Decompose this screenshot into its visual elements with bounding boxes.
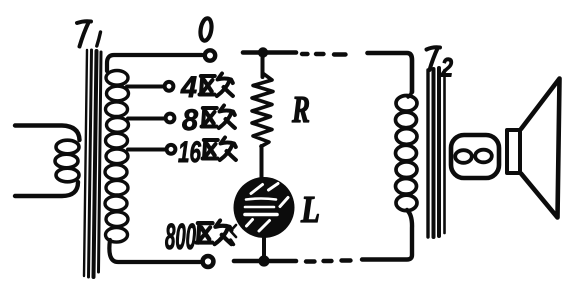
T2 primary winding — [408, 88, 412, 97]
lamp L (hatched disc) — [234, 177, 295, 238]
wire resistor to lamp — [260, 146, 264, 179]
terminal 16-ohm — [167, 145, 176, 154]
T1 primary winding leads — [15, 126, 80, 141]
tap wire 16-ohm — [128, 148, 165, 152]
terminal 0 — [205, 50, 215, 60]
stray pen marks — [231, 225, 237, 237]
wire junction to resistor — [261, 53, 265, 78]
T1 secondary winding loops — [105, 71, 129, 243]
label T1 — [77, 21, 101, 46]
speaker driver (armature) — [451, 135, 499, 178]
svg-text:L: L — [300, 189, 320, 231]
transformer T1 core — [84, 50, 101, 277]
speaker neck — [507, 130, 520, 173]
resistor R — [252, 73, 273, 147]
wire T2 bottom with corner — [362, 210, 412, 260]
tap wire 4-ohm — [127, 85, 163, 89]
terminal 8-ohm — [166, 114, 175, 123]
svg-text:8: 8 — [182, 104, 198, 137]
terminal 4-ohm — [165, 82, 174, 91]
label T2 — [427, 47, 441, 70]
terminal 800-ohm — [203, 256, 214, 267]
wire bottom dashes — [342, 258, 351, 262]
wire top middle — [243, 50, 296, 55]
wire top dashes — [302, 52, 308, 56]
T1 secondary top lead to terminal 0 — [107, 55, 202, 71]
speaker cone — [521, 79, 560, 218]
svg-text:16: 16 — [178, 136, 201, 169]
wire top right with corner down — [368, 53, 413, 92]
T1 primary winding loops — [55, 140, 79, 182]
svg-text:R: R — [291, 89, 310, 131]
wire bottom middle — [234, 259, 296, 264]
svg-text:4: 4 — [180, 71, 197, 104]
label 0 — [199, 18, 213, 42]
wire lamp to bottom junction — [262, 238, 266, 259]
node top junction — [258, 47, 268, 57]
svg-text:2: 2 — [440, 53, 453, 83]
T1 secondary bottom lead — [109, 240, 200, 262]
node bottom junction — [258, 255, 269, 266]
transformer T2 core — [428, 68, 445, 237]
tap wire 8-ohm — [128, 117, 164, 121]
svg-text:800: 800 — [165, 216, 196, 257]
